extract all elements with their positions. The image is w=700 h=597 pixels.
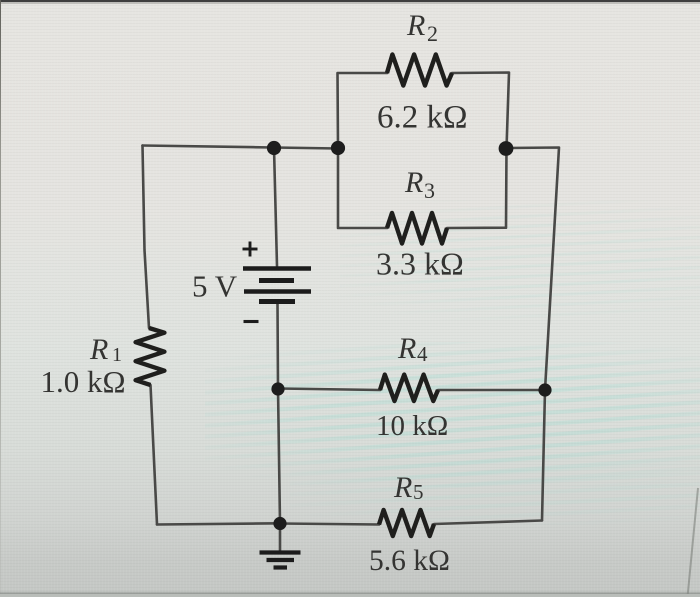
svg-text:R: R xyxy=(393,471,412,504)
svg-text:R: R xyxy=(89,333,108,366)
svg-text:6.2 kΩ: 6.2 kΩ xyxy=(377,100,468,136)
svg-text:5.6 kΩ: 5.6 kΩ xyxy=(369,545,450,577)
svg-text:R: R xyxy=(406,9,425,42)
svg-text:5: 5 xyxy=(413,480,424,504)
svg-text:3: 3 xyxy=(424,178,435,203)
svg-text:1.0 kΩ: 1.0 kΩ xyxy=(41,364,126,399)
svg-text:5 V: 5 V xyxy=(192,269,238,304)
svg-text:R: R xyxy=(397,332,416,365)
svg-text:4: 4 xyxy=(417,342,428,366)
svg-text:3.3 kΩ: 3.3 kΩ xyxy=(376,246,464,282)
svg-text:1: 1 xyxy=(112,344,122,366)
svg-text:2: 2 xyxy=(427,21,438,46)
svg-text:R: R xyxy=(404,166,423,199)
svg-text:10 kΩ: 10 kΩ xyxy=(376,410,448,442)
